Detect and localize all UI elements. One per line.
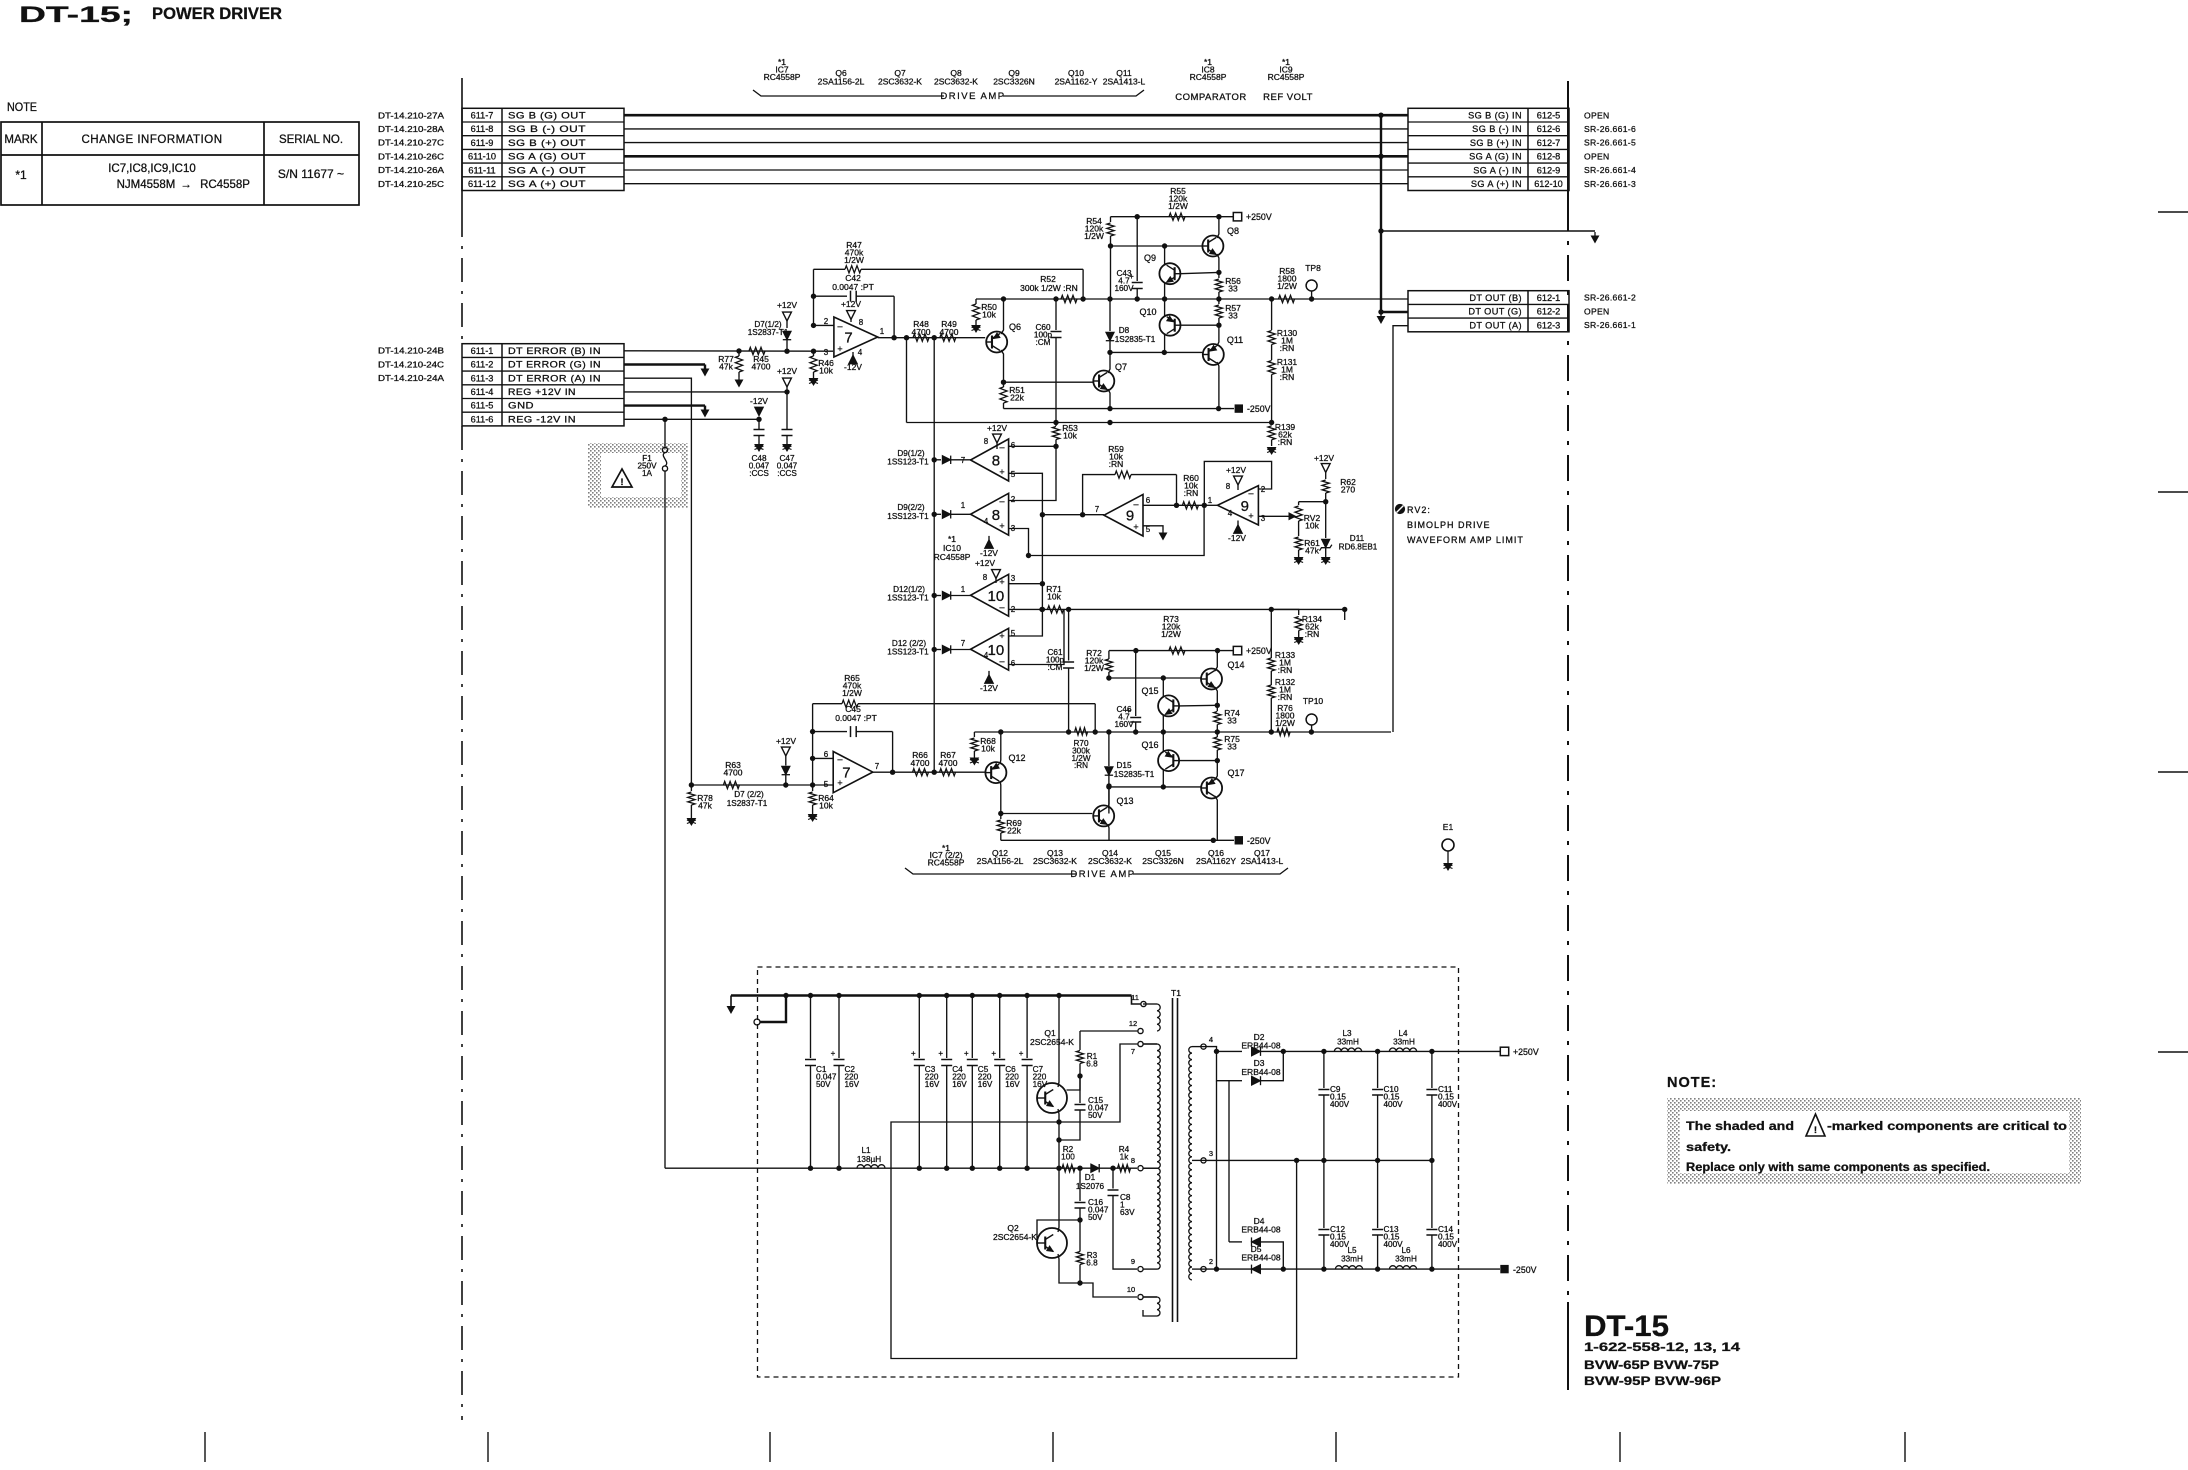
diode D2 ERB44-08 xyxy=(1252,1047,1261,1056)
test point TP10 xyxy=(1306,714,1317,725)
svg-text:4700: 4700 xyxy=(939,758,958,768)
svg-text:1: 1 xyxy=(961,585,966,594)
svg-text:6: 6 xyxy=(1146,496,1151,505)
capacitor C60 100p CM xyxy=(1055,299,1057,330)
registration tick marks bottom xyxy=(204,1432,206,1462)
svg-text:RC4558P: RC4558P xyxy=(1190,72,1227,82)
resistor R131 1M RN xyxy=(1271,345,1273,361)
capacitor C5 220 16V xyxy=(970,993,975,998)
svg-text:NJM4558M: NJM4558M xyxy=(117,179,176,191)
RV2 top wire xyxy=(1299,501,1326,503)
svg-text:DT-14.210-26A: DT-14.210-26A xyxy=(378,166,445,175)
svg-text:SG B (-) OUT: SG B (-) OUT xyxy=(508,124,586,134)
diode D4 ERB44-08 branch xyxy=(1229,1241,1242,1243)
svg-text:1S2837-T1: 1S2837-T1 xyxy=(748,328,789,337)
Q13 emitter xyxy=(1108,824,1109,840)
svg-text:7: 7 xyxy=(875,762,880,771)
Q15 column xyxy=(1162,678,1164,697)
svg-text:16V: 16V xyxy=(845,1080,860,1089)
svg-text:1SS123-T1: 1SS123-T1 xyxy=(887,458,929,467)
svg-text:10: 10 xyxy=(1127,1285,1135,1294)
board boundary chain line left xyxy=(461,78,463,213)
svg-text:+: + xyxy=(964,1049,969,1058)
svg-text:611-12: 611-12 xyxy=(468,179,496,189)
svg-text:10k: 10k xyxy=(1063,431,1077,441)
svg-text:S/N 11677 ~: S/N 11677 ~ xyxy=(278,167,344,181)
op-amp IC7 1/2 (7) xyxy=(834,317,878,357)
Q6 emitter down xyxy=(1001,350,1004,382)
svg-text:-12V: -12V xyxy=(844,362,862,372)
svg-text:10k: 10k xyxy=(819,366,833,376)
diode D5 ERB44-08 xyxy=(1252,1265,1261,1274)
svg-text:-12V: -12V xyxy=(1228,533,1246,543)
svg-text:611-6: 611-6 xyxy=(471,414,494,424)
shaded safety area around fuse F1 xyxy=(588,443,688,508)
svg-text:DT-14.210-26C: DT-14.210-26C xyxy=(378,152,444,161)
resistor R77 47k xyxy=(738,351,740,356)
svg-text::RN: :RN xyxy=(1278,437,1293,447)
svg-text:2SA1413-L: 2SA1413-L xyxy=(1103,77,1146,87)
svg-text:!: ! xyxy=(621,477,624,487)
svg-text:+: + xyxy=(938,1049,943,1058)
registration tick marks right edge xyxy=(2158,211,2188,213)
main comparator wire xyxy=(976,298,1408,300)
transistor Q1 2SC2654-K xyxy=(1037,1083,1067,1113)
Q2 emitter xyxy=(1058,1254,1137,1297)
svg-text:+: + xyxy=(837,344,842,354)
svg-text:+: + xyxy=(837,778,842,788)
svg-text:4: 4 xyxy=(1209,1035,1213,1044)
op9b pin3 wire to RV2 xyxy=(1258,515,1291,517)
resistor R73 120k 1/2W xyxy=(1169,647,1185,654)
pin 4 terminal xyxy=(1192,1046,1206,1048)
svg-text:DT OUT (A): DT OUT (A) xyxy=(1469,320,1522,330)
svg-text:-12V: -12V xyxy=(980,548,998,558)
svg-text:D7 (2/2): D7 (2/2) xyxy=(734,790,764,799)
svg-text:3: 3 xyxy=(1209,1149,1213,1158)
svg-text:10k: 10k xyxy=(819,801,833,811)
Q8 emitter xyxy=(1217,254,1219,272)
fuse symbol xyxy=(664,419,666,447)
svg-text:4700: 4700 xyxy=(912,327,931,337)
svg-text:10k: 10k xyxy=(982,310,996,320)
svg-text:611-9: 611-9 xyxy=(471,138,494,148)
svg-text:1/2W: 1/2W xyxy=(1277,281,1297,291)
Q7 collector xyxy=(1108,352,1110,373)
transistor Q13 xyxy=(1093,805,1114,826)
svg-text:47k: 47k xyxy=(1305,546,1319,556)
+250V rail top xyxy=(1111,216,1234,218)
svg-text:–: – xyxy=(837,321,842,331)
op-amp IC8 a (8) mirrored xyxy=(971,439,1009,481)
svg-text:SG A (-) IN: SG A (-) IN xyxy=(1473,165,1522,175)
svg-text:CHANGE INFORMATION: CHANGE INFORMATION xyxy=(81,134,222,146)
svg-text:DT-15;: DT-15; xyxy=(19,2,133,27)
svg-text:1/2W: 1/2W xyxy=(844,255,864,265)
feedback corner into main wire xyxy=(1082,269,1084,299)
svg-text:DT ERROR (G) IN: DT ERROR (G) IN xyxy=(508,360,601,370)
svg-text:2SC3632-K: 2SC3632-K xyxy=(1088,856,1132,866)
Q10 base wire xyxy=(1181,324,1219,326)
change information table xyxy=(1,122,359,205)
svg-text:+12V: +12V xyxy=(1226,465,1246,475)
svg-text::CM: :CM xyxy=(1035,338,1050,347)
svg-text:POWER DRIVER: POWER DRIVER xyxy=(152,5,282,23)
svg-text:SG A (-) OUT: SG A (-) OUT xyxy=(508,165,586,175)
op-amp 7 -12V pin 4 xyxy=(852,352,854,356)
svg-text:DT-14.210-24A: DT-14.210-24A xyxy=(378,374,445,383)
resistor R68 10k xyxy=(973,732,975,737)
svg-text:4: 4 xyxy=(984,651,989,660)
resistor R72 120k 1/2W xyxy=(1108,651,1110,659)
svg-text:1S2837-T1: 1S2837-T1 xyxy=(727,799,768,808)
op7b output wire xyxy=(873,771,985,773)
transistor Q8 xyxy=(1202,236,1223,257)
input connector circle xyxy=(754,1019,760,1025)
transistor Q16 xyxy=(1158,750,1179,771)
svg-text:SG A (+) IN: SG A (+) IN xyxy=(1471,179,1522,189)
svg-text:OPEN: OPEN xyxy=(1584,110,1610,120)
svg-text:1: 1 xyxy=(880,327,885,336)
svg-text:Replace only with same compone: Replace only with same components as spe… xyxy=(1686,1162,1990,1174)
pin 10 terminal xyxy=(1138,1294,1143,1299)
svg-text:2: 2 xyxy=(1209,1257,1213,1266)
svg-text:RC4558P: RC4558P xyxy=(200,179,250,191)
svg-text:11: 11 xyxy=(1131,993,1139,1002)
secondary negative rail xyxy=(1206,1268,1500,1270)
secondary positive rail xyxy=(1206,1047,1217,1052)
resistor R65 470k 1/2W feedback xyxy=(813,703,842,705)
svg-text:D8: D8 xyxy=(1119,326,1130,335)
svg-text:*1: *1 xyxy=(15,168,27,182)
capacitor C11 0.15 400V xyxy=(1431,1051,1433,1088)
wire Q6 emitter to Q7 base xyxy=(1004,381,1093,383)
connector CN612 lower (DT OUT) table xyxy=(1408,291,1569,332)
svg-text:1SS123-T1: 1SS123-T1 xyxy=(887,512,929,521)
svg-text:1SS123-T1: 1SS123-T1 xyxy=(887,648,929,657)
-250V output terminal xyxy=(1500,1265,1508,1273)
wire D8 to Q11 base xyxy=(1110,351,1202,353)
svg-text:16V: 16V xyxy=(925,1080,940,1089)
svg-text:The shaded and: The shaded and xyxy=(1686,1121,1794,1133)
svg-text:1A: 1A xyxy=(642,469,653,478)
svg-text:5: 5 xyxy=(1011,629,1016,638)
resistor R48 4700 xyxy=(913,334,929,341)
secondary mid rail xyxy=(1206,1159,1432,1161)
svg-text:+250V: +250V xyxy=(1513,1047,1539,1057)
svg-text:4: 4 xyxy=(858,348,863,357)
resistor R69 22k xyxy=(1000,814,1002,820)
svg-text:ERB44-08: ERB44-08 xyxy=(1241,1067,1280,1077)
svg-text:611-11: 611-11 xyxy=(468,165,495,175)
svg-text:1SS123-T1: 1SS123-T1 xyxy=(887,594,929,603)
svg-text:OPEN: OPEN xyxy=(1584,151,1610,161)
resistor R66 4700 xyxy=(913,769,929,776)
svg-text:safety.: safety. xyxy=(1686,1142,1731,1154)
R65 wire corner down to R70 row xyxy=(1094,704,1096,732)
capacitor C2 220 16V xyxy=(836,993,841,998)
capacitor C46 4.7 160V xyxy=(1135,651,1137,716)
diode D8 1S2835-T1 xyxy=(1110,246,1112,299)
svg-text:5: 5 xyxy=(1011,470,1016,479)
diode D9(1/2) 1SS123-T1 xyxy=(932,457,937,462)
svg-text:DT-15: DT-15 xyxy=(1584,1310,1669,1343)
op9b feedback loop xyxy=(1204,461,1271,505)
svg-text:612-5: 612-5 xyxy=(1537,111,1561,121)
svg-text:+12V: +12V xyxy=(776,736,796,746)
svg-text:50V: 50V xyxy=(1088,1111,1103,1120)
svg-text:GND: GND xyxy=(508,401,534,411)
transistor Q10 xyxy=(1160,315,1181,336)
-250V terminal xyxy=(1235,404,1243,412)
svg-text:Q16: Q16 xyxy=(1141,740,1158,750)
svg-text:612-9: 612-9 xyxy=(1537,165,1561,175)
op-amp 7 output wire xyxy=(878,337,986,339)
resistor R55 120k 1/2W xyxy=(1169,213,1185,220)
op-amp IC9 b (9) mirrored xyxy=(1218,486,1259,525)
resistor R2 100 xyxy=(1062,1165,1075,1172)
Q12 collector xyxy=(999,732,1002,764)
svg-text:4700: 4700 xyxy=(752,362,771,372)
Q12 emitter xyxy=(999,781,1002,814)
Q17 collector xyxy=(1215,761,1217,780)
capacitor C10 0.15 400V xyxy=(1377,1051,1379,1088)
resistor R60 10k RN xyxy=(1182,502,1198,509)
svg-text:611-1: 611-1 xyxy=(471,346,494,356)
svg-text:DT-14.210-27C: DT-14.210-27C xyxy=(378,139,444,148)
svg-text:ERB44-08: ERB44-08 xyxy=(1241,1253,1280,1263)
op8b pin2 wire xyxy=(1009,446,1056,500)
transistor Q14 xyxy=(1201,669,1222,690)
svg-text:RC4558P: RC4558P xyxy=(764,72,801,82)
wire R139 row xyxy=(907,422,1272,424)
svg-text:SR-26.661-1: SR-26.661-1 xyxy=(1584,320,1636,330)
svg-text:Q11: Q11 xyxy=(1227,335,1243,345)
svg-text:10k: 10k xyxy=(981,744,995,754)
svg-text:SG A (G) IN: SG A (G) IN xyxy=(1469,152,1522,162)
svg-text:T1: T1 xyxy=(1171,988,1181,998)
svg-text:2SC2654-K: 2SC2654-K xyxy=(993,1232,1037,1242)
svg-text:→: → xyxy=(180,179,192,191)
svg-text:1k: 1k xyxy=(1120,1152,1130,1161)
fuse wire down to power supply xyxy=(664,471,666,1168)
svg-text:+250V: +250V xyxy=(1246,646,1272,656)
drive amp lower brace xyxy=(905,868,1076,874)
svg-text:8: 8 xyxy=(1131,1156,1135,1165)
inductor L1 138uH xyxy=(857,1165,885,1169)
transistor Q11 xyxy=(1203,344,1224,365)
svg-text:4700: 4700 xyxy=(911,758,930,768)
inductor L6 33mH xyxy=(1389,1266,1416,1269)
pin 12 terminal xyxy=(1138,1028,1143,1033)
svg-text:-marked components are critica: -marked components are critical to xyxy=(1827,1121,2067,1133)
Q13 collector xyxy=(1108,786,1109,808)
resistor R67 4700 xyxy=(940,769,956,776)
Q11 emitter xyxy=(1217,362,1219,409)
svg-text:612-8: 612-8 xyxy=(1537,152,1561,162)
svg-text:–: – xyxy=(999,656,1004,666)
svg-text:-250V: -250V xyxy=(1247,836,1271,846)
svg-text:D1: D1 xyxy=(1085,1173,1096,1182)
pin 7 terminal xyxy=(1138,1041,1143,1046)
capacitor C8 1 63V xyxy=(1112,1168,1114,1188)
pin 3 terminal xyxy=(1192,1159,1206,1161)
svg-text::RN: :RN xyxy=(1074,761,1088,770)
svg-text:DRIVE AMP: DRIVE AMP xyxy=(940,91,1005,102)
svg-text:DT-14.210-24B: DT-14.210-24B xyxy=(378,347,444,356)
svg-text:REG +12V IN: REG +12V IN xyxy=(508,387,576,397)
svg-text:8: 8 xyxy=(984,437,989,446)
svg-text:–: – xyxy=(999,442,1004,452)
svg-text:+: + xyxy=(999,577,1004,587)
svg-text:+: + xyxy=(999,631,1004,641)
svg-text:160V: 160V xyxy=(1114,720,1134,729)
svg-text:300k 1/2W :RN: 300k 1/2W :RN xyxy=(1020,283,1078,293)
capacitor C16 0.047 50V xyxy=(1079,1168,1081,1201)
rail to +250V with L3 L4 xyxy=(1283,1050,1500,1052)
svg-text:1/2W: 1/2W xyxy=(1084,231,1104,241)
svg-text::CM: :CM xyxy=(1047,663,1062,672)
warning triangle xyxy=(612,469,632,487)
transistor Q15 xyxy=(1158,695,1179,716)
op8a pin6 wire to R53 xyxy=(1009,445,1056,447)
svg-text:Q8: Q8 xyxy=(1227,226,1239,236)
svg-text:-12V: -12V xyxy=(980,683,998,693)
svg-text:6.8: 6.8 xyxy=(1086,1059,1098,1068)
svg-text:D15: D15 xyxy=(1116,761,1131,770)
wire D15 to Q17 base row xyxy=(1109,786,1201,788)
svg-text:0.0047 :PT: 0.0047 :PT xyxy=(832,282,874,292)
op7b pin6 wire xyxy=(813,757,834,759)
svg-text:47k: 47k xyxy=(698,801,712,811)
capacitor C12 0.15 400V xyxy=(1323,1160,1325,1228)
wire DT OUT A vertical xyxy=(1344,609,1346,620)
Q15 base wire xyxy=(1179,704,1217,707)
svg-text:7: 7 xyxy=(842,765,850,782)
op9a pin6 wire xyxy=(1143,504,1204,506)
op9a input wire xyxy=(1042,514,1104,516)
svg-text:Q15: Q15 xyxy=(1141,686,1158,696)
svg-text:SR-26.661-4: SR-26.661-4 xyxy=(1584,165,1636,175)
svg-text:612-10: 612-10 xyxy=(1534,179,1563,189)
board boundary chain line right xyxy=(1567,81,1569,205)
wire into 612-2 xyxy=(1381,311,1408,313)
svg-text:270: 270 xyxy=(1341,485,1355,495)
Q2 collector xyxy=(1058,1168,1059,1232)
op10a pin2 wire to R71 xyxy=(1009,608,1345,610)
svg-text:1S2835-T1: 1S2835-T1 xyxy=(1114,770,1155,779)
feedback vertical from pin2 xyxy=(813,269,815,325)
svg-text:7: 7 xyxy=(961,639,966,648)
svg-text:400V: 400V xyxy=(1330,1100,1350,1109)
capacitor C47 0.047 CCS xyxy=(786,392,788,430)
svg-text:2SC3632-K: 2SC3632-K xyxy=(934,77,978,87)
Q17 emitter xyxy=(1215,796,1217,840)
svg-text:IC7,IC8,IC9,IC10: IC7,IC8,IC9,IC10 xyxy=(108,163,196,175)
svg-text:22k: 22k xyxy=(1007,826,1021,836)
svg-text:2SC3632-K: 2SC3632-K xyxy=(878,77,922,87)
Q16 base wire xyxy=(1179,760,1217,762)
diode D3 ERB44-08 branch xyxy=(1217,1051,1230,1080)
Q6 collector to comparator line xyxy=(1001,299,1004,334)
primary lower bus xyxy=(665,1167,1060,1169)
svg-text:611-10: 611-10 xyxy=(468,152,496,162)
resistor R53 10k xyxy=(1055,423,1057,427)
capacitor C48 0.047 CCS xyxy=(758,419,760,429)
resistor R78 47k xyxy=(690,785,692,791)
op-amp IC10 b (10) mirrored xyxy=(971,628,1009,670)
inductor L5 33mH xyxy=(1335,1266,1362,1269)
svg-text:SG A (G) OUT: SG A (G) OUT xyxy=(508,152,586,162)
svg-text:DT ERROR (B) IN: DT ERROR (B) IN xyxy=(508,346,601,356)
svg-text:3: 3 xyxy=(1261,514,1266,523)
svg-text:E1: E1 xyxy=(1443,822,1454,832)
primary top bus xyxy=(731,994,1132,996)
resistor R51 22k xyxy=(1003,382,1005,387)
transformer core xyxy=(1172,998,1174,1322)
ground wire to chassis xyxy=(1381,230,1595,232)
capacitor C4 220 16V xyxy=(944,993,949,998)
svg-text:COMPARATOR: COMPARATOR xyxy=(1175,92,1247,103)
capacitor C43 4.7 160V xyxy=(1136,217,1138,281)
transistor Q2 2SC2654-K xyxy=(1037,1228,1067,1258)
capacitor C1 0.047 50V xyxy=(808,993,813,998)
svg-text:7: 7 xyxy=(961,456,966,465)
svg-text:TP10: TP10 xyxy=(1303,696,1324,706)
-250V wire bottom drive xyxy=(1001,839,1234,841)
svg-text:138µH: 138µH xyxy=(857,1155,881,1164)
svg-text:6.8: 6.8 xyxy=(1086,1258,1098,1267)
svg-text:1/2W: 1/2W xyxy=(842,688,862,698)
svg-text:6: 6 xyxy=(824,750,829,759)
svg-text:2SC3326N: 2SC3326N xyxy=(993,77,1035,87)
svg-text:1: 1 xyxy=(1208,496,1213,505)
resistor R71 10k xyxy=(1048,606,1064,613)
svg-text:SG B (G) IN: SG B (G) IN xyxy=(1468,111,1522,121)
potentiometer RV2 10k xyxy=(1298,502,1300,505)
svg-text::RN: :RN xyxy=(1278,692,1293,702)
svg-text:2SA1156-2L: 2SA1156-2L xyxy=(977,856,1024,866)
svg-text:+250V: +250V xyxy=(1246,212,1272,222)
svg-text:ERB44-08: ERB44-08 xyxy=(1241,1041,1280,1051)
svg-text:2SA1162Y: 2SA1162Y xyxy=(1196,856,1236,866)
-250V wire lower xyxy=(1004,408,1235,410)
svg-text:4: 4 xyxy=(1228,509,1233,518)
svg-text:–: – xyxy=(1248,488,1253,498)
svg-text:4700: 4700 xyxy=(724,768,743,778)
svg-text:1/2W: 1/2W xyxy=(1168,201,1188,211)
resistor R139 62k RN xyxy=(1268,426,1275,440)
svg-text:RV2:: RV2: xyxy=(1407,505,1431,515)
svg-text:2SC3632-K: 2SC3632-K xyxy=(1033,856,1077,866)
resistor R57 33 xyxy=(1218,299,1220,304)
op-amp IC7 2/2 (7) xyxy=(833,752,873,793)
transistor Q9 xyxy=(1159,263,1180,284)
svg-text:+: + xyxy=(1019,1049,1024,1058)
svg-text:+12V: +12V xyxy=(975,558,995,568)
safety note shaded box xyxy=(1667,1098,2081,1184)
op9a pin5 ground xyxy=(1143,526,1163,530)
svg-text:1S2835-T1: 1S2835-T1 xyxy=(1115,335,1156,344)
capacitor C61 100p CM xyxy=(1068,609,1070,660)
drive amp brace xyxy=(753,90,944,96)
bus corner to pin 11 xyxy=(1132,996,1142,1005)
svg-text:BIMOLPH DRIVE: BIMOLPH DRIVE xyxy=(1407,520,1491,530)
svg-text:MARK: MARK xyxy=(4,134,38,146)
resistor R132 1M RN xyxy=(1270,671,1272,685)
svg-text:63V: 63V xyxy=(1120,1208,1135,1217)
svg-text:DT-14.210-27A: DT-14.210-27A xyxy=(378,111,445,120)
